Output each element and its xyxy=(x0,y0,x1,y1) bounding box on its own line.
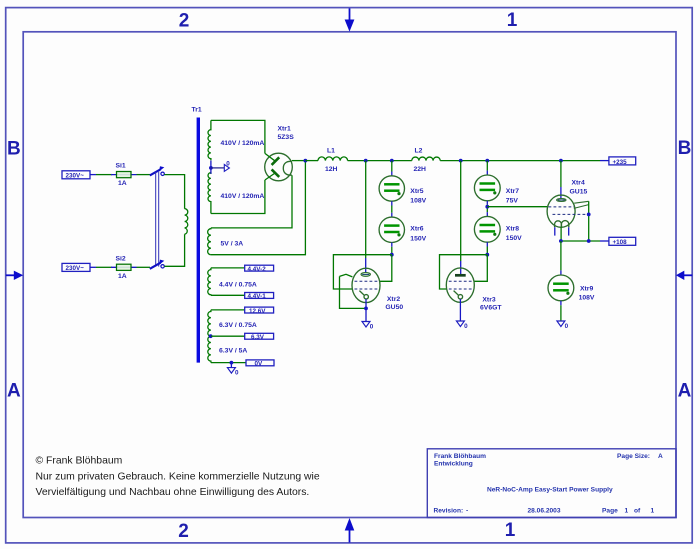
svg-text:-: - xyxy=(466,508,468,515)
wire switch pole2 to primary bottom xyxy=(164,234,184,266)
secondary winding 4.4V xyxy=(208,268,211,295)
switch pole 1 xyxy=(150,166,165,175)
tap junction 6.3V xyxy=(209,334,213,338)
svg-text:Si1: Si1 xyxy=(116,163,126,170)
svg-text:230V~: 230V~ xyxy=(66,265,85,272)
GU50 cathode pin xyxy=(365,299,367,308)
svg-text:Frank Blöhbaum: Frank Blöhbaum xyxy=(434,453,486,460)
svg-text:6V6GT: 6V6GT xyxy=(480,304,502,311)
svg-text:A: A xyxy=(7,380,21,401)
svg-text:B: B xyxy=(7,139,21,160)
junction GU50 cathode xyxy=(364,307,368,311)
svg-text:Xtr2: Xtr2 xyxy=(387,296,400,303)
ground under 6V6 xyxy=(456,299,468,330)
wire to net 0V xyxy=(211,362,246,364)
junction Xtr7 branch xyxy=(485,159,489,163)
svg-text:12.6V: 12.6V xyxy=(249,308,266,315)
GU15 cathode wire xyxy=(560,227,562,241)
tube Xtr3 6V6GT xyxy=(446,268,474,302)
svg-text:22H: 22H xyxy=(414,166,427,173)
wire rail to Xtr5 xyxy=(391,161,393,176)
junction +108 left xyxy=(559,239,563,243)
svg-text:1A: 1A xyxy=(118,273,127,280)
secondary winding 410V lower xyxy=(208,173,211,214)
svg-text:Page: Page xyxy=(602,508,618,515)
wire switch pole1 to primary top xyxy=(164,175,184,209)
wire fuse Si1 to switch xyxy=(137,174,151,176)
border arrow top xyxy=(345,8,355,31)
GU50 grid loop left xyxy=(333,255,391,289)
svg-text:6.3V / 5A: 6.3V / 5A xyxy=(219,347,247,354)
wire 410V upper to rectifier anode xyxy=(211,120,265,153)
junction B+ xyxy=(304,159,308,163)
svg-text:+108: +108 xyxy=(613,239,628,246)
junction Xtr5 branch xyxy=(390,159,394,163)
B+ rail wire to L1 xyxy=(305,160,318,162)
wire Xtr5 to Xtr6 xyxy=(391,201,393,217)
tube Xtr4 GU15 xyxy=(547,195,589,227)
wire rectifier cathode to rail xyxy=(292,160,306,162)
center tap junction xyxy=(209,166,213,170)
junction 6V6 grid loop xyxy=(485,253,489,257)
svg-text:0: 0 xyxy=(226,160,230,167)
wire 230V lower to fuse Si2 xyxy=(96,266,112,268)
svg-text:0V: 0V xyxy=(255,361,264,368)
ground at 0V winding xyxy=(227,363,239,377)
net label 6.3V xyxy=(245,333,274,341)
inductor L2 xyxy=(412,147,440,173)
switch coupling bar xyxy=(156,172,159,267)
wire tap to GU15 grid xyxy=(487,206,547,208)
secondary winding 6.3V/5A xyxy=(208,336,211,362)
svg-text:Xtr6: Xtr6 xyxy=(410,226,423,233)
terminal +235 xyxy=(600,157,636,166)
svg-text:12H: 12H xyxy=(325,166,338,173)
svg-text:Xtr3: Xtr3 xyxy=(482,296,495,303)
svg-text:A: A xyxy=(658,453,663,460)
secondary winding 410V upper xyxy=(208,120,211,160)
GU15 screen tab wire xyxy=(588,201,590,241)
inductor L1 xyxy=(318,147,348,173)
svg-text:5V / 3A: 5V / 3A xyxy=(221,240,244,247)
svg-text:Xtr7: Xtr7 xyxy=(506,188,519,195)
svg-text:© Frank Blöhbaum: © Frank Blöhbaum xyxy=(36,456,123,467)
border arrow left xyxy=(6,271,23,280)
title block xyxy=(427,449,676,518)
svg-text:28.06.2003: 28.06.2003 xyxy=(528,508,561,515)
svg-text:Tr1: Tr1 xyxy=(192,107,202,114)
tube Xtr6 150V xyxy=(379,217,427,242)
svg-text:L2: L2 xyxy=(415,147,423,154)
fuse Si2 xyxy=(111,255,137,279)
tube Xtr8 150V xyxy=(474,216,522,242)
border arrow right xyxy=(676,271,692,280)
transformer primary winding xyxy=(185,209,188,235)
GU50 grid loop right xyxy=(380,255,392,282)
tube Xtr7 75V xyxy=(474,175,519,204)
svg-text:Entwicklung: Entwicklung xyxy=(434,461,473,468)
tube Xtr2 GU50 xyxy=(340,268,381,302)
svg-text:0: 0 xyxy=(464,323,468,330)
wire to net 6.3V xyxy=(211,335,245,337)
fuse Si1 xyxy=(111,163,137,187)
wire rail to GU50 anode xyxy=(365,161,367,273)
net 0 flag at center tap xyxy=(211,160,230,171)
svg-text:Xtr9: Xtr9 xyxy=(580,285,593,292)
secondary winding 6.3V/0.75A xyxy=(208,310,211,336)
junction +108 right xyxy=(587,239,591,243)
svg-text:Xtr1: Xtr1 xyxy=(278,126,291,133)
svg-text:4.4V / 0.75A: 4.4V / 0.75A xyxy=(219,282,257,289)
svg-text:6.3V / 0.75A: 6.3V / 0.75A xyxy=(219,322,257,329)
wire rail to 6V6 anode xyxy=(460,161,462,275)
wire 5V bottom to B+ junction xyxy=(211,161,306,255)
ground under Xtr9 xyxy=(557,301,569,330)
center tap pin xyxy=(210,161,212,174)
wire to net 12.6V xyxy=(211,309,245,311)
tube Xtr5 108V xyxy=(379,176,427,205)
svg-text:75V: 75V xyxy=(506,197,519,204)
junction GU15 anode branch xyxy=(559,159,563,163)
svg-text:4.4V-2: 4.4V-2 xyxy=(248,266,267,273)
svg-text:of: of xyxy=(634,508,641,515)
svg-text:0: 0 xyxy=(565,323,569,330)
svg-text:2: 2 xyxy=(179,11,190,32)
svg-text:Xtr5: Xtr5 xyxy=(410,188,423,195)
svg-text:0: 0 xyxy=(370,324,374,331)
wire Xtr8 to 6V6 grid node xyxy=(486,242,488,255)
wire Xtr7 to Xtr8 xyxy=(486,201,488,217)
svg-text:Nur zum privaten Gebrauch. Kei: Nur zum privaten Gebrauch. Keine kommerz… xyxy=(36,471,320,482)
wire 230V upper to fuse Si1 xyxy=(96,174,112,176)
switch pole 2 xyxy=(150,260,165,269)
tube Xtr9 108V xyxy=(548,275,595,302)
svg-text:0: 0 xyxy=(235,370,239,377)
svg-text:1: 1 xyxy=(651,508,655,515)
svg-text:Vervielfältigung und Nachbau o: Vervielfältigung und Nachbau ohne Einwil… xyxy=(36,487,310,498)
junction GU15 tab grid xyxy=(587,213,591,217)
svg-text:Page Size:: Page Size: xyxy=(617,453,650,460)
rectifier tube Xtr1 xyxy=(265,153,293,181)
wire 5V top to rectifier cathode xyxy=(211,175,292,228)
terminal 230V~ upper xyxy=(62,171,96,180)
svg-text:+235: +235 xyxy=(613,159,628,166)
junction 6V6 anode branch xyxy=(459,159,463,163)
svg-text:150V: 150V xyxy=(410,235,426,242)
junction GU50 grid loop xyxy=(390,253,394,257)
svg-text:5Z3S: 5Z3S xyxy=(278,134,295,141)
svg-text:L1: L1 xyxy=(327,147,335,154)
GU50 cathode tab wire xyxy=(340,276,367,308)
wire +108 to Xtr9 xyxy=(560,241,562,275)
svg-text:GU15: GU15 xyxy=(570,189,588,196)
junction 0V ground xyxy=(230,361,234,365)
svg-text:1: 1 xyxy=(507,10,518,31)
net label 4.4V-1 xyxy=(245,293,274,301)
svg-text:150V: 150V xyxy=(506,235,522,242)
net label 4.4V-2 xyxy=(245,265,274,273)
wire fuse Si2 to switch xyxy=(137,266,151,268)
wire Xtr6 to GU50 grid node xyxy=(391,243,393,255)
transformer Tr1 core xyxy=(197,118,200,363)
junction GU15 grid tap xyxy=(485,205,489,209)
+108 rail wire xyxy=(561,240,600,242)
wire rail to GU15 anode xyxy=(560,161,562,199)
secondary winding 5V/3A xyxy=(208,228,211,255)
svg-text:410V / 120mA: 410V / 120mA xyxy=(221,140,265,147)
border arrow bottom xyxy=(345,518,355,543)
wire to net 4.4V-1 xyxy=(211,294,245,296)
svg-text:410V / 120mA: 410V / 120mA xyxy=(221,193,265,200)
rail wire L1 to L2 xyxy=(348,160,412,162)
svg-text:6.3V: 6.3V xyxy=(251,334,265,341)
GU15 filament pins xyxy=(555,227,569,235)
svg-text:1A: 1A xyxy=(118,180,127,187)
svg-text:2: 2 xyxy=(178,521,189,542)
svg-text:Si2: Si2 xyxy=(116,255,126,262)
svg-text:1: 1 xyxy=(625,508,629,515)
rail wire L2 to +235 xyxy=(440,160,600,162)
terminal +108 xyxy=(600,237,636,246)
svg-text:1: 1 xyxy=(505,520,516,541)
svg-text:Xtr4: Xtr4 xyxy=(572,179,585,186)
svg-text:108V: 108V xyxy=(579,295,595,302)
ground under GU50 xyxy=(362,308,374,330)
svg-text:Revision:: Revision: xyxy=(434,508,464,515)
svg-text:4.4V-1: 4.4V-1 xyxy=(248,293,267,300)
net label 12.6V xyxy=(245,307,274,315)
svg-text:NeR-NoC-Amp Easy-Start Power S: NeR-NoC-Amp Easy-Start Power Supply xyxy=(487,487,613,494)
wire to net 4.4V-2 xyxy=(211,267,245,269)
svg-text:A: A xyxy=(678,380,692,401)
wire rail to Xtr7 xyxy=(486,161,488,176)
svg-text:108V: 108V xyxy=(410,198,426,205)
svg-text:Xtr8: Xtr8 xyxy=(506,226,519,233)
svg-text:B: B xyxy=(678,138,692,159)
terminal 230V~ lower xyxy=(62,263,96,272)
6V6 grid loop left xyxy=(440,255,488,289)
wire 410V lower to rectifier anode xyxy=(211,180,265,214)
net label 0V xyxy=(246,360,274,368)
6V6 grid loop right xyxy=(474,255,487,282)
svg-text:230V~: 230V~ xyxy=(66,173,85,180)
junction GU50 anode xyxy=(364,159,368,163)
svg-text:GU50: GU50 xyxy=(385,304,403,311)
